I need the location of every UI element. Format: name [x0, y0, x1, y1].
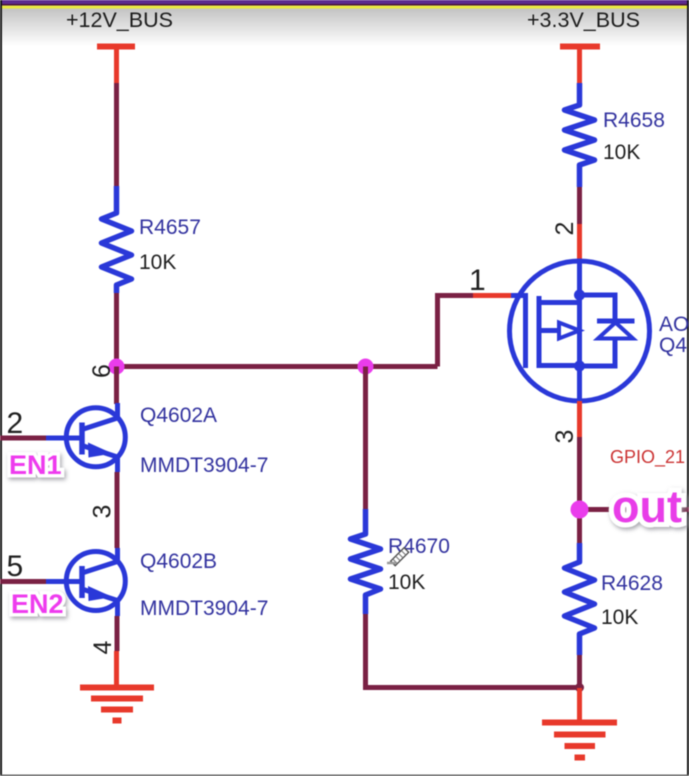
junction dot drain: [574, 290, 585, 301]
svg-text:10K: 10K: [603, 141, 640, 164]
wire source to out node (maroon): [577, 437, 582, 543]
body arrow stub: [539, 328, 559, 333]
svg-text:R4628: R4628: [601, 572, 663, 595]
wire node bus horizontal: [117, 364, 438, 369]
svg-text:GPIO_21: GPIO_21: [610, 447, 685, 468]
wire node to Q4602A collector: [114, 367, 119, 405]
wire Q4602B emitter to ground (maroon): [115, 616, 120, 651]
ground pin (red): [114, 651, 119, 687]
collector pin stub (blue): [115, 403, 120, 418]
svg-text:MMDT3904-7: MMDT3904-7: [140, 454, 268, 477]
svg-text:+12V_BUS: +12V_BUS: [66, 8, 173, 32]
node A junction dot: [109, 359, 125, 375]
drain stub: [539, 300, 580, 305]
wire node to gate jog: [438, 296, 474, 367]
out node junction dot: [571, 501, 589, 519]
svg-text:+3.3V_BUS: +3.3V_BUS: [527, 8, 640, 32]
base pin stub Q4602B (blue): [46, 579, 82, 584]
svg-text:EN1: EN1: [9, 450, 62, 480]
svg-text:Q4602A: Q4602A: [140, 404, 217, 427]
svg-text:3: 3: [551, 430, 579, 444]
svg-text:6: 6: [88, 364, 116, 378]
svg-text:1: 1: [469, 264, 486, 297]
transistor Q4602B: [66, 552, 125, 611]
junction dot source: [574, 361, 585, 372]
resistor R4657: [102, 186, 132, 293]
svg-text:R4658: R4658: [603, 109, 665, 132]
wire R4657 to node 6 (maroon): [114, 293, 119, 367]
resistor R4628: [565, 543, 595, 655]
svg-text:Q4: Q4: [659, 334, 687, 357]
wire R4628 to bottom bus (maroon): [577, 655, 582, 688]
wire gate pin (red): [473, 293, 512, 298]
body diode triangle: [598, 323, 633, 339]
gate lead and plate: [511, 296, 526, 369]
power symbol +12V bar: [97, 44, 135, 50]
svg-text:2: 2: [551, 222, 579, 236]
wire +12V pin (red): [114, 47, 119, 84]
bottom junction: [575, 683, 584, 692]
wire +12V to R4657 (maroon): [114, 83, 119, 187]
wire node B to R4670 (maroon): [363, 367, 368, 510]
collector pin stub Q4602B (blue): [115, 548, 120, 562]
power symbol +3.3V bar: [560, 44, 600, 50]
emitter pin stub Q4602B (blue): [115, 601, 120, 617]
svg-text:MMDT3904-7: MMDT3904-7: [140, 597, 268, 620]
source pin (red): [577, 401, 582, 437]
drain pin (red): [577, 224, 582, 261]
wire out to right edge (maroon): [580, 507, 689, 512]
svg-text:4: 4: [89, 640, 117, 654]
svg-text:3: 3: [89, 505, 117, 519]
mouse cursor: [391, 548, 409, 566]
ground symbol left: [80, 688, 154, 721]
wire +3.3V pin (red): [577, 47, 582, 84]
ground symbol right: [542, 723, 617, 758]
wire R4670 to bottom bus (maroon): [366, 614, 580, 688]
svg-text:R4657: R4657: [139, 216, 201, 239]
svg-text:2: 2: [7, 407, 24, 440]
channel bar: [537, 296, 542, 368]
mosfet Q4: [510, 261, 650, 401]
ground pin right (red): [577, 688, 582, 722]
wire Q4602A emitter to Q4602B collector: [115, 472, 120, 548]
wire base Q4602B (maroon): [0, 579, 46, 584]
channel vertical: [577, 262, 582, 400]
svg-text:AO: AO: [659, 313, 689, 336]
emitter pin stub Q4602A (blue): [115, 457, 120, 472]
svg-text:10K: 10K: [139, 251, 176, 274]
svg-text:10K: 10K: [601, 606, 638, 629]
svg-text:10K: 10K: [388, 571, 425, 594]
wire base Q4602A (maroon): [0, 436, 46, 441]
svg-text:EN2: EN2: [11, 589, 64, 619]
resistor R4670: [351, 509, 381, 614]
resistor R4658: [565, 83, 595, 187]
transistor Q4602A: [66, 408, 125, 467]
node B junction dot: [358, 359, 374, 375]
svg-text:Q4602B: Q4602B: [140, 550, 217, 573]
wire R4658 to drain (maroon): [577, 187, 582, 224]
source stub: [539, 363, 580, 368]
svg-text:out: out: [612, 481, 682, 532]
svg-text:5: 5: [7, 550, 24, 583]
base pin stub Q4602A (blue): [46, 436, 82, 441]
body arrow: [559, 323, 580, 339]
body diode branch: [580, 295, 635, 366]
